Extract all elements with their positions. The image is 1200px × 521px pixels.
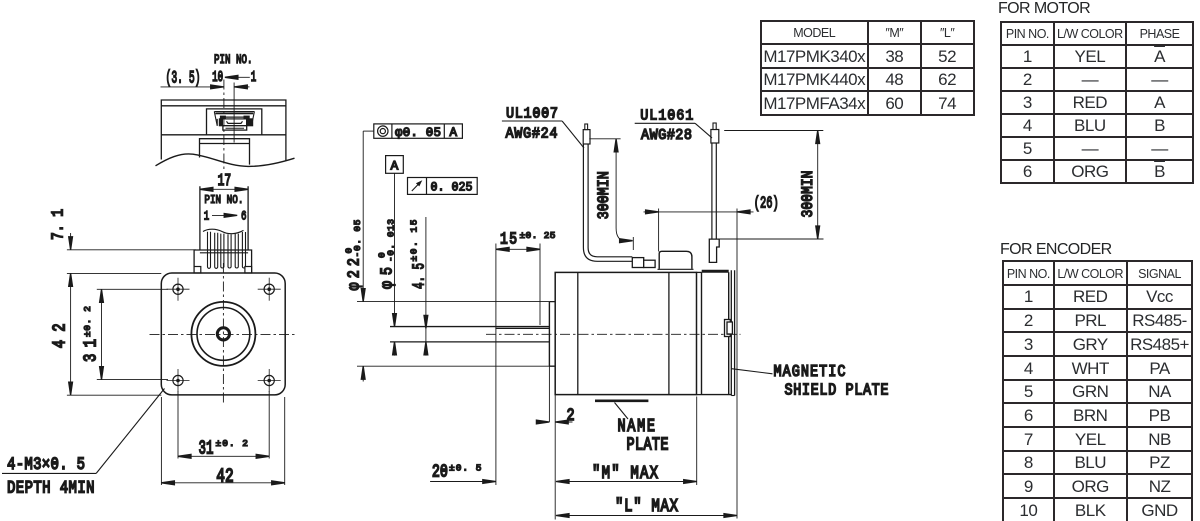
svg-text:31: 31 <box>80 339 101 362</box>
svg-text:±0. 25: ±0. 25 <box>520 230 556 241</box>
front view: dimension 17 line and arrows <box>200 188 248 190</box>
front view: pilot circle outer <box>191 302 255 366</box>
dimension 300MIN right: ticks <box>724 130 823 132</box>
svg-text:φ22: φ22 <box>344 258 364 291</box>
dimension 300MIN right: dim line and arrows <box>817 131 819 240</box>
side view: encoder side connector detail <box>725 320 731 337</box>
svg-text:15: 15 <box>500 229 517 249</box>
dimension 42 bottom: extension lines <box>160 397 162 485</box>
datum A box <box>386 156 404 174</box>
side view: rear endbell line <box>668 272 670 394</box>
svg-text:42: 42 <box>49 323 70 348</box>
front view: wavy wire-break line in connector box <box>203 229 244 234</box>
dimension M MAX: extension line right <box>696 397 698 486</box>
dimension 15: dim line and arrows <box>496 248 540 250</box>
svg-text:″L″ MAX: ″L″ MAX <box>615 495 678 516</box>
top view: connector slot band 1 <box>215 112 253 114</box>
front view: connector base <box>194 250 252 273</box>
dimension 7.1: extension lines <box>67 250 196 395</box>
encoder lead wire (UL1061) <box>712 143 716 239</box>
svg-text:0. 025: 0. 025 <box>431 181 473 195</box>
motor connector cover on body top <box>659 251 692 269</box>
FOR MOTOR title <box>998 0 1090 18</box>
front view: mounting hole top-right <box>258 278 281 301</box>
svg-text:31: 31 <box>199 439 214 461</box>
top view: lower connector boss <box>200 139 250 165</box>
side view: pilot boss <box>549 302 555 367</box>
front view: connector base feet <box>194 267 201 274</box>
side view: shaft <box>390 327 549 342</box>
svg-text:A: A <box>390 158 398 173</box>
svg-text:A: A <box>450 126 458 140</box>
svg-text:″M″ MAX: ″M″ MAX <box>592 462 658 483</box>
dimension 42 left: dim line and arrows <box>70 273 72 395</box>
dimension (3.5): line and arrows <box>161 86 250 88</box>
top view: connector inner trapezoid <box>214 112 254 126</box>
dimension 7.1: dim line and arrow <box>70 233 72 250</box>
top view: connector step block <box>223 126 247 130</box>
side view: front endbell line <box>577 272 579 394</box>
model dimension table <box>760 20 975 116</box>
dimension M MAX: dim line and arrows <box>556 481 697 483</box>
svg-text:6: 6 <box>241 209 247 224</box>
svg-text:PLATE: PLATE <box>627 435 669 455</box>
svg-text:0: 0 <box>377 252 388 258</box>
svg-text:PIN NO.: PIN NO. <box>204 194 243 207</box>
svg-text:20: 20 <box>432 461 448 482</box>
svg-text:4. 5: 4. 5 <box>409 263 429 289</box>
svg-text:PIN NO.: PIN NO. <box>214 53 253 68</box>
top view: connector mid outline <box>217 119 252 126</box>
top view: center line pin10 (dash-dot) <box>223 80 225 172</box>
svg-text:±0. 15: ±0. 15 <box>409 219 420 261</box>
svg-text:AWG#24: AWG#24 <box>506 126 558 143</box>
svg-text:DEPTH 4MIN: DEPTH 4MIN <box>7 478 95 498</box>
feature control frame: runout <box>408 178 478 195</box>
front view: shaft ring (thick) <box>217 328 229 340</box>
svg-text:42: 42 <box>216 467 234 489</box>
dimension 31 bottom: extension lines <box>177 391 179 459</box>
dimension 300MIN left: terminal reference line <box>632 237 634 250</box>
encoder wire tip cap <box>711 130 719 144</box>
top view: connector slot band 2 <box>220 116 226 119</box>
svg-text:UL1061: UL1061 <box>640 108 693 125</box>
svg-text:±0. 5: ±0. 5 <box>449 462 482 473</box>
svg-text:±0. 2: ±0. 2 <box>216 438 249 449</box>
svg-text:(26): (26) <box>754 196 779 213</box>
top view: connector housing outer box <box>207 109 262 135</box>
name plate thick line <box>595 399 648 402</box>
svg-text:MAGNETIC: MAGNETIC <box>774 364 846 381</box>
front view: connector box sides <box>200 186 248 250</box>
svg-text:φ5: φ5 <box>377 267 397 289</box>
side view: encoder housing <box>702 272 729 394</box>
front view: motor body square <box>161 273 285 395</box>
svg-text:NAME: NAME <box>618 416 656 436</box>
motor lead wire (UL1007) <box>583 144 632 261</box>
motor wire crimp terminal <box>632 258 643 268</box>
dimension 300MIN left: top tick <box>589 138 620 140</box>
side view: center line (dash-dot) <box>486 333 741 335</box>
leader to bottom-left mounting hole <box>96 389 164 474</box>
magnetic shield plate leader and label <box>732 369 773 374</box>
dimension 4.5: dim line through shaft end <box>425 217 427 356</box>
motor pin table <box>1000 21 1194 184</box>
dimension 2: extension and dim lines <box>548 366 550 422</box>
svg-text:AWG#28: AWG#28 <box>641 127 692 144</box>
dimension L MAX: dim line and arrows <box>556 515 737 517</box>
dimension 15: extension lines <box>495 244 497 486</box>
dimension phi5: dim line (shared with datum leader) <box>394 173 396 355</box>
front view: center lines (dash-dot) <box>150 334 298 336</box>
dimension 31 left: dim line and arrows <box>101 289 103 379</box>
front view: connector pins <box>208 232 246 269</box>
side view: encoder top thick band <box>702 270 729 273</box>
side view: body-encoder gap edges <box>697 271 702 273</box>
svg-text:(3. 5): (3. 5) <box>166 68 201 88</box>
encoder wire bottom connector <box>709 239 719 262</box>
dimension phi22: leader from FCF and dim lines <box>357 131 549 381</box>
runout symbol arrow <box>412 182 421 191</box>
front view: mounting hole bottom-left <box>167 369 190 392</box>
svg-text:2: 2 <box>567 405 575 425</box>
svg-text:φ0. 05: φ0. 05 <box>395 126 441 140</box>
svg-text:0: 0 <box>344 248 355 254</box>
top view: motor body upper outline <box>161 100 286 161</box>
svg-text:±0. 2: ±0. 2 <box>82 306 93 337</box>
svg-text:300MIN: 300MIN <box>596 171 613 219</box>
svg-text:17: 17 <box>218 170 232 190</box>
svg-text:1: 1 <box>251 70 257 86</box>
dimension 20: dim line and arrow <box>430 481 496 483</box>
front view: mounting hole bottom-right <box>258 369 281 392</box>
magnetic shield plate <box>731 270 734 395</box>
svg-text:UL1007: UL1007 <box>506 106 558 123</box>
svg-text:300MIN: 300MIN <box>800 171 817 218</box>
svg-text:4-M3×0. 5: 4-M3×0. 5 <box>7 454 85 474</box>
name plate leader <box>615 403 629 420</box>
front view: mounting hole top-left <box>167 278 190 301</box>
dimension 300MIN left: dim line with curve <box>616 139 626 241</box>
FOR ENCODER title <box>1000 241 1112 259</box>
front view: pilot circle inner <box>197 308 250 361</box>
svg-text:10: 10 <box>212 70 223 86</box>
encoder pin table <box>1002 260 1194 521</box>
svg-text:7. 1: 7. 1 <box>50 209 68 240</box>
side view: motor body outline <box>555 272 696 394</box>
dimension 31 left: extension lines <box>97 288 168 290</box>
dimension 42 bottom: dim line and arrows <box>161 482 284 484</box>
top view: pin1 reference line <box>233 83 235 143</box>
body face extension line <box>554 395 556 520</box>
dimension (26): extension lines <box>658 209 660 252</box>
svg-text:SHIELD PLATE: SHIELD PLATE <box>785 382 889 399</box>
top view: break wave line <box>156 154 295 166</box>
feature control frame: concentricity <box>374 124 463 138</box>
svg-text:1: 1 <box>204 209 210 224</box>
dimension L MAX: extension line right <box>736 209 738 519</box>
motor wire tip cap <box>583 130 590 144</box>
dimension (26): dim line and arrows <box>644 211 754 213</box>
dimension 31 bottom: dim line and arrows <box>178 455 269 457</box>
